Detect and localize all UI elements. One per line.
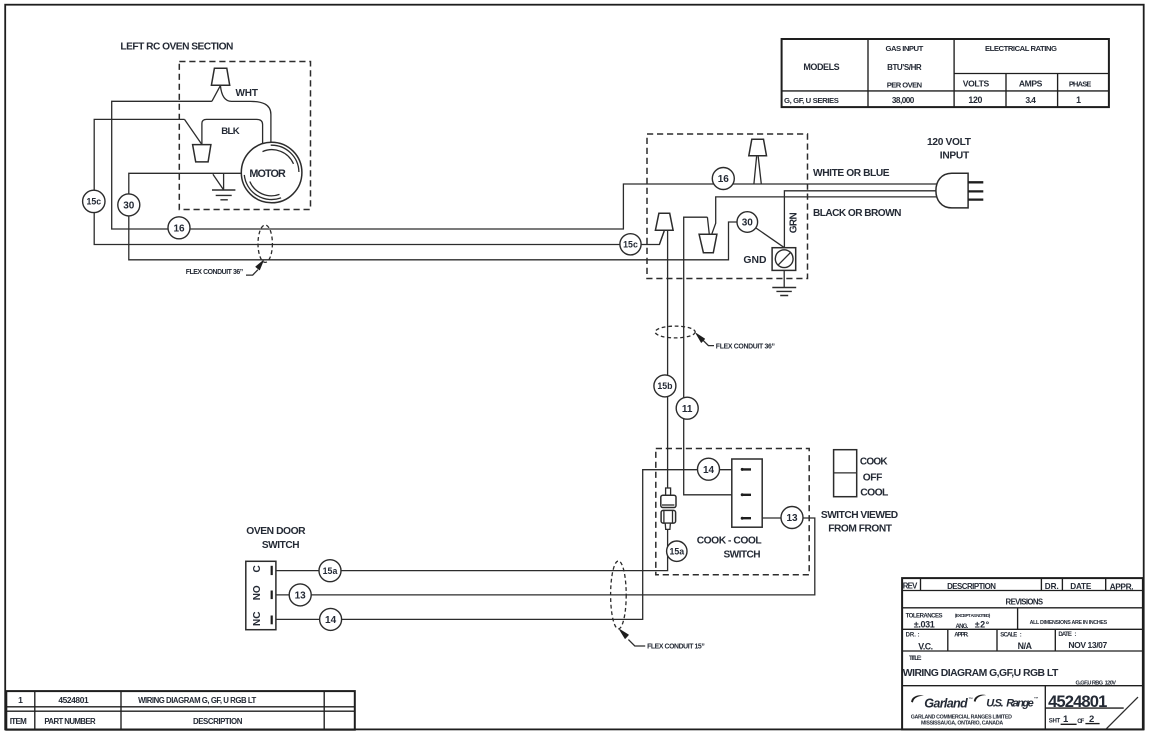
Garland logo <box>911 695 973 710</box>
svg-text:WIRING DIAGRAM G, GF, U RGB LT: WIRING DIAGRAM G, GF, U RGB LT <box>138 696 256 705</box>
svg-text:14: 14 <box>703 465 715 476</box>
svg-text:16: 16 <box>173 223 185 234</box>
flex conduit ellipse (bottom, 15 inch) <box>611 561 627 629</box>
svg-text:™: ™ <box>968 697 973 702</box>
wire nut WN2 (BLK splice, inverted) <box>193 145 211 162</box>
parts list table (bottom left) <box>6 691 355 730</box>
svg-text:DR. :: DR. : <box>906 633 920 639</box>
svg-text:COOK: COOK <box>860 457 888 468</box>
wire BLK/15c: left run down through node 15c and across to right section splice <box>94 119 664 244</box>
svg-text:PART NUMBER: PART NUMBER <box>44 717 96 726</box>
wire BLACK OR BROWN: from plug to splice <box>712 197 937 234</box>
svg-text:REVISIONS: REVISIONS <box>1006 598 1044 607</box>
svg-text:SWITCH VIEWED: SWITCH VIEWED <box>821 510 898 521</box>
cook-cool switch S1 body <box>732 459 762 527</box>
svg-text:GRN: GRN <box>788 212 799 233</box>
svg-text:WHITE OR BLUE: WHITE OR BLUE <box>813 168 890 179</box>
node 13 (oven door) <box>289 584 311 606</box>
svg-text:COOL: COOL <box>860 488 889 499</box>
svg-text:U.S.: U.S. <box>986 698 1004 710</box>
left oven dashed enclosure <box>179 62 310 210</box>
right input dashed enclosure <box>647 134 808 279</box>
svg-text:FROM FRONT: FROM FRONT <box>828 524 893 535</box>
wire 30: motor common run down and across to right section node 30 <box>129 173 750 259</box>
svg-text:15c: 15c <box>623 240 638 250</box>
label OVEN DOOR SWITCH <box>246 526 306 551</box>
wire nut WN3 (white splice, right section) <box>749 139 767 156</box>
svg-text:15c: 15c <box>86 197 101 207</box>
diagonal slash (sheet block) <box>1106 697 1138 729</box>
svg-text:DESCRIPTION: DESCRIPTION <box>193 717 243 726</box>
svg-text:3.4: 3.4 <box>1025 95 1036 105</box>
svg-text:N/A: N/A <box>1018 641 1033 651</box>
title block frame <box>902 578 1143 729</box>
oven door switch terminal NC <box>271 616 273 625</box>
company address text <box>911 715 1012 727</box>
node 14 (oven door) <box>320 608 342 630</box>
svg-text:1: 1 <box>1063 714 1069 725</box>
wire BLK motor branch <box>202 119 263 144</box>
wire nut leg (BLK splice left leg) <box>185 119 202 144</box>
oven door switch terminal NO <box>271 591 273 600</box>
svg-text:120 VOLT: 120 VOLT <box>927 137 972 148</box>
motor M1 <box>241 142 302 203</box>
wire nut WN1 (WHT splice) <box>211 68 229 85</box>
wire WHT motor branch <box>220 86 271 143</box>
wire 30 diagonal to GND block <box>747 222 784 248</box>
svg-text:120: 120 <box>968 95 982 105</box>
svg-text:38,000: 38,000 <box>892 96 915 105</box>
svg-text:SWITCH: SWITCH <box>724 549 761 560</box>
label COOK - COOL SWITCH <box>697 536 762 561</box>
svg-text:DATE :: DATE : <box>1058 632 1076 638</box>
node 15c (right) <box>620 234 641 255</box>
svg-text:OVEN DOOR: OVEN DOOR <box>246 526 306 537</box>
svg-text:C: C <box>252 565 263 572</box>
svg-text:DATE: DATE <box>1070 582 1092 591</box>
wire 14: cook terminal run to oven door switch NC <box>272 470 732 620</box>
node 30 (left) <box>118 194 140 216</box>
inline connector F1 (quick disconnect on 15a/15b) <box>661 488 676 529</box>
plug P1 (120V line cord plug) <box>936 173 983 208</box>
label SWITCH VIEWED FROM FRONT <box>821 510 898 534</box>
svg-text:1: 1 <box>1076 95 1081 105</box>
svg-text:APPR.: APPR. <box>954 632 969 638</box>
svg-text:LEFT RC OVEN SECTION: LEFT RC OVEN SECTION <box>120 42 233 53</box>
svg-text:ELECTRICAL RATING: ELECTRICAL RATING <box>985 44 1057 53</box>
svg-text:NC: NC <box>252 612 263 626</box>
title block revision header texts <box>903 581 1134 606</box>
svg-text:™: ™ <box>1034 696 1039 701</box>
node 15a (cook-cool) <box>667 541 687 561</box>
oven door switch terminal C <box>271 566 273 575</box>
ground block GND (circle-slash in square) <box>772 248 796 271</box>
svg-text:DR.: DR. <box>1045 582 1059 591</box>
node 15a (oven door) <box>319 560 341 582</box>
svg-text:ALL DIMENSIONS ARE IN INCHES: ALL DIMENSIONS ARE IN INCHES <box>1030 620 1108 626</box>
title text <box>903 656 1116 687</box>
svg-text:±.031: ±.031 <box>914 620 935 630</box>
svg-text:WIRING DIAGRAM G,GF,U RGB LT: WIRING DIAGRAM G,GF,U RGB LT <box>903 668 1059 679</box>
leader arrow to bottom flex conduit <box>620 630 646 646</box>
node 16 (left) <box>168 217 190 239</box>
label 120 VOLT INPUT <box>927 137 972 161</box>
svg-text:TITLE:: TITLE: <box>909 656 922 662</box>
wire nut leg (WHT splice left leg) <box>212 86 221 102</box>
node 11 <box>676 397 698 419</box>
wire nut WN3 legs (white splice) <box>754 157 761 185</box>
svg-text:GAS INPUT: GAS INPUT <box>886 44 924 53</box>
leader arrow to left flex conduit <box>246 261 263 275</box>
svg-text:4524801: 4524801 <box>58 695 89 705</box>
front view rocker switch <box>834 450 857 497</box>
flex conduit ellipse (middle, 36 inch) <box>655 326 695 338</box>
svg-text:Range: Range <box>1006 698 1033 710</box>
wire WHT/16: splice to motor-white, left run down and across to 120V input <box>112 101 937 229</box>
wire 13: cool terminal run to oven door switch NO <box>272 518 815 595</box>
svg-text:OFF: OFF <box>863 473 883 484</box>
svg-text:MODELS: MODELS <box>803 62 839 72</box>
svg-text:NOV 13/07: NOV 13/07 <box>1068 640 1107 650</box>
svg-text:G,GF,U RBG 120V: G,GF,U RBG 120V <box>1076 681 1117 687</box>
wire GRN: green run from plug down to ground block <box>784 191 936 248</box>
wire 11: from splice down to cook-cool switch center terminal <box>684 217 732 495</box>
wire 15a: inline connector down to oven door switch C <box>272 529 668 570</box>
svg-text:VOLTS: VOLTS <box>963 79 990 89</box>
svg-text:15b: 15b <box>657 381 673 391</box>
U.S. Range logo <box>974 695 1039 710</box>
node 30 (right) <box>737 212 758 233</box>
models / rating table <box>782 39 1109 107</box>
wire nut WN5 (black splice, inverted) <box>699 234 717 252</box>
node 15c (left) <box>83 190 105 212</box>
svg-text:PER OVEN: PER OVEN <box>887 80 922 89</box>
svg-text:PHASE: PHASE <box>1069 80 1092 89</box>
cook-cool dashed enclosure <box>656 449 809 575</box>
svg-text:MISSISSAUGA, ONTARIO, CANADA: MISSISSAUGA, ONTARIO, CANADA <box>921 720 1003 726</box>
svg-text:DESCRIPTION: DESCRIPTION <box>947 582 996 591</box>
title block tolerance texts <box>906 612 1108 630</box>
flex conduit ellipse (left, 36 inch) <box>258 225 272 262</box>
svg-text:1: 1 <box>18 695 23 705</box>
svg-text:SHT: SHT <box>1049 718 1061 724</box>
svg-text:13: 13 <box>786 513 798 524</box>
svg-text:GND: GND <box>743 255 767 266</box>
node 14 (cook-cool) <box>698 458 720 480</box>
title block signature texts <box>906 632 1108 651</box>
svg-text:APPR.: APPR. <box>1110 581 1134 591</box>
svg-text:WHT: WHT <box>236 88 259 99</box>
leader arrow to middle flex conduit <box>696 334 714 346</box>
svg-text:ANG.: ANG. <box>956 624 969 630</box>
svg-text:G, GF, U SERIES: G, GF, U SERIES <box>784 96 839 105</box>
svg-text:13: 13 <box>295 591 307 602</box>
oven door switch body <box>246 561 276 629</box>
svg-text:FLEX CONDUIT 15”: FLEX CONDUIT 15” <box>647 644 705 651</box>
svg-text:NO: NO <box>252 585 263 600</box>
svg-text:COOK - COOL: COOK - COOL <box>697 536 762 547</box>
svg-text:FLEX CONDUIT 36”: FLEX CONDUIT 36” <box>186 269 244 276</box>
svg-text:INPUT: INPUT <box>940 150 970 161</box>
labels COOK OFF COOL <box>860 457 889 499</box>
svg-text:(EXCEPT AS NOTED): (EXCEPT AS NOTED) <box>955 613 991 618</box>
svg-text:15a: 15a <box>323 566 338 576</box>
svg-text:BLK: BLK <box>221 126 240 137</box>
svg-text:4524801: 4524801 <box>1048 692 1107 711</box>
svg-text:REV: REV <box>903 582 918 591</box>
ground symbol (motor frame ground) <box>212 174 235 200</box>
svg-text:11: 11 <box>682 404 693 415</box>
svg-text:TOLERANCES: TOLERANCES <box>906 612 943 619</box>
node 16 (right) <box>712 168 734 190</box>
ground symbol (input ground) <box>772 270 796 295</box>
svg-text:ITEM: ITEM <box>10 717 27 726</box>
svg-text:16: 16 <box>718 174 730 185</box>
svg-text:Garland: Garland <box>924 696 968 710</box>
svg-text:V.C.: V.C. <box>918 641 933 651</box>
svg-text:14: 14 <box>325 615 337 626</box>
svg-text:MOTOR: MOTOR <box>249 168 286 180</box>
svg-text:30: 30 <box>123 201 135 212</box>
svg-text:OF: OF <box>1077 719 1084 725</box>
svg-text:SWITCH: SWITCH <box>262 540 300 551</box>
svg-text:15a: 15a <box>669 546 684 556</box>
wire 15b: from splice down to inline connector <box>659 230 667 488</box>
svg-text:BTU’S/HR: BTU’S/HR <box>887 63 922 72</box>
svg-text:±2°: ±2° <box>975 620 990 630</box>
svg-text:AMPS: AMPS <box>1019 79 1043 89</box>
wire nut WN4 (15c/15b splice) <box>655 213 673 230</box>
sheet number SHT 1 OF 2 <box>1049 714 1100 725</box>
svg-text:SCALE :: SCALE : <box>1000 633 1022 639</box>
node 13 (cook-cool) <box>781 507 803 529</box>
svg-text:30: 30 <box>742 218 754 229</box>
svg-text:BLACK OR BROWN: BLACK OR BROWN <box>813 208 901 219</box>
svg-text:FLEX CONDUIT 36”: FLEX CONDUIT 36” <box>716 343 775 350</box>
node 15b <box>654 375 676 397</box>
